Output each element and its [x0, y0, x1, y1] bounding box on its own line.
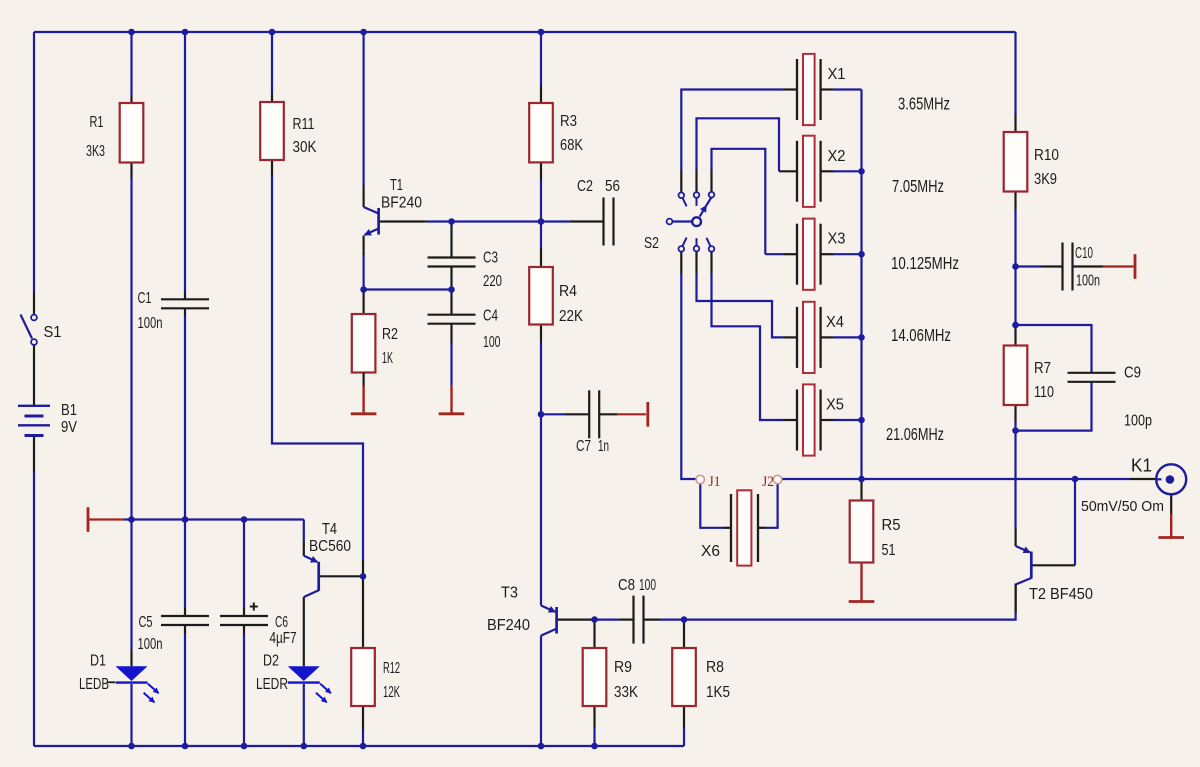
svg-text:C5: C5 [139, 614, 153, 631]
node node T4 base [360, 573, 367, 580]
wire X4 right lead [821, 336, 834, 338]
wire T4 collector to D2 [303, 597, 305, 666]
svg-text:33K: 33K [614, 684, 638, 701]
node top rail R1 [128, 29, 135, 36]
node node C7 [538, 411, 545, 418]
svg-text:C8: C8 [618, 577, 635, 594]
resistor R3 [529, 103, 553, 162]
svg-text:50mV/50 Om: 50mV/50 Om [1081, 498, 1164, 515]
wire top supply rail [34, 31, 1016, 33]
resistor R2 [352, 314, 376, 373]
svg-text:22K: 22K [559, 308, 583, 325]
node bus X2 [858, 168, 865, 175]
node bias row C6 [241, 516, 248, 523]
svg-text:30K: 30K [293, 139, 317, 156]
wire D2 cathode to rail [303, 684, 305, 746]
svg-text:9V: 9V [61, 419, 77, 436]
node rail R9 [591, 743, 598, 750]
wire X1 right lead to bus [821, 88, 834, 90]
S2 wiper arrow [700, 206, 707, 217]
wire C10 left lead [1016, 265, 1042, 267]
svg-text:J2: J2 [762, 474, 774, 490]
svg-text:100: 100 [483, 334, 501, 351]
node bus X4 [858, 334, 865, 341]
svg-text:R3: R3 [560, 113, 577, 130]
capacitor C1 [161, 298, 209, 300]
capacitor C10 [1061, 243, 1063, 291]
wire C1 column [184, 32, 186, 291]
svg-text:T3: T3 [501, 585, 518, 602]
resistor R9 [583, 648, 607, 706]
node bias row C5 [182, 516, 189, 523]
wire S2 bottom-middle contact to X4 [695, 252, 697, 275]
svg-text:C6: C6 [275, 614, 288, 631]
wire C6 column [243, 520, 245, 609]
wire R9 bottom lead [593, 706, 595, 728]
node rail D2 [301, 743, 308, 750]
svg-text:C4: C4 [483, 308, 498, 325]
crystal X1 [796, 59, 798, 120]
svg-text:R8: R8 [706, 659, 724, 676]
svg-text:12K: 12K [383, 684, 400, 701]
svg-text:X6: X6 [701, 543, 720, 560]
battery B1 [18, 405, 50, 407]
wire output row J2 to K1 [782, 478, 1130, 480]
node top rail R11 [269, 29, 276, 36]
wire T3 emitter to bottom rail [540, 636, 542, 746]
wire S2 top-middle contact to X2 [695, 170, 697, 192]
svg-text:C9: C9 [1124, 365, 1141, 382]
ground under R2 [362, 386, 364, 414]
svg-text:R1: R1 [90, 114, 104, 131]
wire C5 column [184, 520, 186, 609]
node rail T3 [538, 743, 545, 750]
node output T2 base [1072, 476, 1079, 483]
svg-text:3.65MHz: 3.65MHz [898, 94, 950, 114]
wire R2 top lead [363, 290, 365, 315]
svg-text:10.125MHz: 10.125MHz [891, 253, 959, 273]
svg-text:R2: R2 [382, 326, 398, 343]
transistor T1 BF240 [377, 208, 380, 235]
ground terminal right of C7 [646, 402, 649, 427]
switch S1 [31, 315, 37, 321]
svg-text:X5: X5 [826, 397, 844, 414]
wire S2 top-left contact to X1 [680, 170, 682, 192]
ground under C4 [450, 385, 452, 414]
resistor R10 [1004, 132, 1028, 192]
wire S2 bottom-left contact to J1 [680, 252, 682, 274]
wire R8 top lead [683, 620, 685, 648]
node top rail T1 [360, 29, 367, 36]
crystal X5 [796, 390, 798, 451]
resistor R5 [850, 501, 874, 563]
crystal X6 [730, 494, 732, 562]
transistor T4 BC560 [319, 575, 363, 577]
capacitor C4 [428, 314, 476, 316]
wire D1 column [130, 520, 132, 651]
node top rail C1 [182, 29, 189, 36]
crystal X2 [796, 141, 798, 202]
wire R9 top lead [593, 620, 595, 648]
svg-text:R7: R7 [1034, 360, 1051, 377]
svg-text:LEDR: LEDR [256, 676, 288, 693]
wire R4 bottom to C7 node and T3 [540, 325, 542, 343]
node output R5 [858, 476, 865, 483]
wire R11 column [271, 32, 273, 94]
resistor R7 [1004, 346, 1028, 406]
wire R1 column [130, 32, 132, 95]
ground terminal left bias [87, 507, 90, 532]
wire B1 to bottom rail [33, 437, 35, 473]
wire crystal bus vertical [860, 90, 862, 480]
svg-text:R4: R4 [559, 283, 577, 300]
svg-text:S1: S1 [44, 324, 62, 341]
node node R7 bottom [1012, 427, 1019, 434]
wire R7 top lead [1014, 325, 1016, 346]
svg-text:R12: R12 [383, 660, 400, 677]
svg-text:21.06MHz: 21.06MHz [886, 424, 944, 444]
node node R9 [591, 616, 598, 623]
wire C7 right lead to terminal [599, 413, 617, 415]
wire X5 right lead [821, 419, 834, 421]
svg-text:1K5: 1K5 [706, 684, 730, 701]
svg-text:T2 BF450: T2 BF450 [1029, 586, 1093, 603]
wire C10 right lead to terminal [1072, 265, 1104, 267]
svg-text:R5: R5 [882, 517, 901, 534]
wire R5 top lead [860, 479, 862, 501]
capacitor C6 [220, 615, 268, 617]
wire C3 top lead [450, 222, 452, 258]
wire C9 branch [1016, 325, 1092, 373]
svg-text:7.05MHz: 7.05MHz [892, 176, 944, 196]
svg-text:14.06MHz: 14.06MHz [891, 325, 951, 345]
wire S2 bottom-right contact to X5 [710, 252, 712, 274]
wire S2 top-right contact to X3 [710, 170, 712, 192]
wire C8 row to T2 collector [684, 613, 1016, 620]
resistor R12 [351, 648, 375, 706]
node base node R3/R4 [538, 218, 545, 225]
svg-text:100n: 100n [138, 315, 163, 332]
wire T4 emitter drop [303, 520, 305, 543]
wire T2 emitter column [1014, 431, 1016, 527]
capacitor C2 [602, 198, 604, 246]
svg-text:J1: J1 [709, 474, 721, 490]
wire R10 column top [1014, 32, 1016, 114]
svg-text:100n: 100n [138, 636, 163, 653]
svg-text:220: 220 [483, 273, 502, 290]
svg-text:C1: C1 [138, 290, 152, 307]
svg-text:K1: K1 [1131, 456, 1152, 476]
svg-text:BF240: BF240 [487, 617, 530, 634]
crystal X3 [796, 224, 798, 285]
resistor R4 [529, 267, 553, 325]
S2 top contacts [679, 193, 685, 199]
node top rail R3 [538, 29, 545, 36]
capacitor C3 [428, 256, 476, 258]
svg-text:1n: 1n [598, 438, 609, 455]
node emitter node C3/C4 [448, 286, 455, 293]
svg-text:T1: T1 [390, 177, 403, 194]
svg-text:X2: X2 [828, 148, 846, 165]
wire R12 top lead [362, 576, 364, 648]
wire R3 column [540, 32, 542, 85]
svg-text:R11: R11 [293, 116, 315, 133]
wire T1 emitter column [363, 236, 365, 256]
wire C7 left lead [541, 413, 565, 415]
node node R7 top [1012, 322, 1019, 329]
svg-text:1K: 1K [382, 350, 393, 367]
wire C3-C4 link [450, 267, 452, 315]
ground terminal right of C10 [1134, 254, 1137, 279]
svg-text:4µF7: 4µF7 [270, 630, 297, 647]
svg-text:C7: C7 [576, 438, 591, 455]
svg-text:C10: C10 [1075, 245, 1093, 262]
wire T1 collector column [363, 32, 365, 185]
svg-text:56: 56 [605, 178, 620, 195]
svg-text:110: 110 [1034, 384, 1054, 401]
wire left bias row from terminal [89, 518, 124, 520]
transistor T2 BF450 [1030, 552, 1033, 579]
node rail D1 [128, 743, 135, 750]
svg-text:LEDB: LEDB [79, 676, 109, 693]
wire X2 right lead [821, 170, 834, 172]
LED D2 [288, 666, 320, 681]
svg-text:D1: D1 [90, 653, 106, 670]
jumper pad J2 [773, 475, 781, 483]
node bus X3 [858, 251, 865, 258]
wire T1 base to C2 [379, 220, 425, 222]
svg-text:R10: R10 [1034, 147, 1059, 164]
node rail R12 [360, 743, 367, 750]
wire S1 to B1 [33, 345, 35, 405]
svg-text:X3: X3 [828, 231, 846, 248]
wire J1 to X6 [700, 484, 723, 528]
crystal X4 [796, 307, 798, 368]
svg-text:100: 100 [639, 577, 656, 594]
wire X3 right lead [821, 253, 834, 255]
svg-text:51: 51 [882, 542, 896, 559]
svg-text:BC560: BC560 [309, 538, 351, 555]
S2 bottom contacts [679, 246, 685, 252]
node rail C6 [241, 743, 248, 750]
resistor R1 [120, 103, 144, 163]
svg-text:BF240: BF240 [381, 195, 422, 212]
node bias row D1 [128, 516, 135, 523]
svg-text:C3: C3 [483, 250, 498, 267]
node rail C5 [182, 743, 189, 750]
wire R8 bottom lead [683, 706, 685, 728]
jumper pad J1 [696, 475, 704, 483]
node bus X5 [858, 417, 865, 424]
wire bottom ground rail [34, 745, 684, 747]
ground under K1 [1170, 514, 1172, 538]
wire left column top (rail to S1) [33, 32, 35, 292]
svg-text:T4: T4 [322, 521, 337, 538]
capacitor C9 [1068, 372, 1116, 374]
C6 polarity plus [250, 606, 258, 608]
wire R4 top lead [540, 222, 542, 249]
transistor T3 BF240 [557, 618, 595, 620]
node base node C3 [448, 218, 455, 225]
node emitter node R2 [360, 286, 367, 293]
svg-text:R9: R9 [614, 659, 632, 676]
node node C10 [1012, 263, 1019, 270]
capacitor C8 [632, 596, 634, 644]
svg-text:100p: 100p [1124, 413, 1152, 430]
rotary switch S2 [667, 219, 673, 225]
capacitor C7 [588, 390, 590, 438]
wire C4 bottom to ground [450, 323, 452, 344]
svg-text:X1: X1 [828, 66, 846, 83]
resistor R8 [672, 648, 696, 706]
wire C8 row from T3 base [598, 618, 621, 620]
LED D1 [116, 666, 148, 681]
wire R7 bottom lead [1014, 405, 1016, 422]
wire R11 to T4 base jog [272, 176, 363, 560]
wire T2 base riser [1074, 479, 1076, 565]
svg-text:S2: S2 [644, 235, 659, 252]
svg-text:B1: B1 [61, 402, 77, 419]
svg-text:X4: X4 [826, 314, 844, 331]
wire emitter row to C3/C4 [364, 288, 452, 290]
resistor R11 [260, 102, 284, 160]
wire R12 bottom lead [362, 706, 364, 730]
svg-text:100n: 100n [1076, 273, 1100, 290]
wire X6 to J2 [758, 527, 766, 529]
capacitor C5 [161, 615, 209, 617]
svg-text:C2: C2 [577, 178, 593, 195]
node node R8 [681, 616, 688, 623]
connector K1 [1156, 464, 1186, 494]
svg-text:3K9: 3K9 [1034, 171, 1057, 188]
wire R10 to C10 node [1014, 192, 1016, 211]
svg-text:68K: 68K [560, 137, 583, 154]
svg-text:3K3: 3K3 [86, 143, 105, 160]
ground under R5 [860, 563, 862, 602]
svg-text:D2: D2 [263, 653, 279, 670]
